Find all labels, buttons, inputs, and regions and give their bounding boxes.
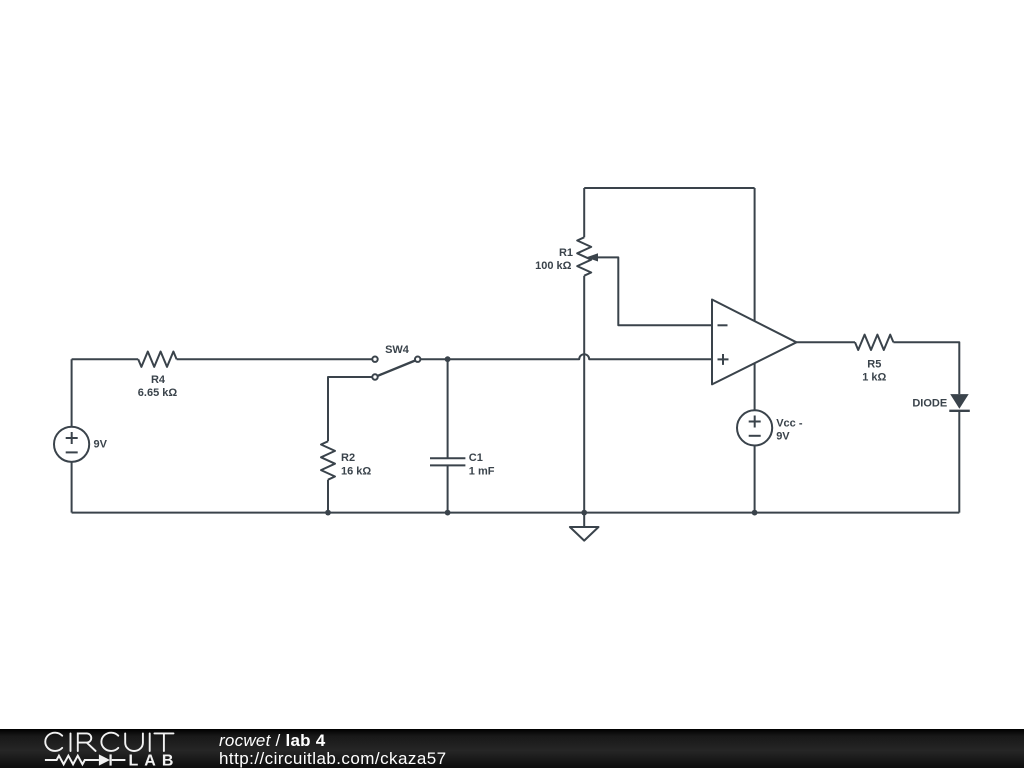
wire: 9V source bottom to bottom rail [71,462,73,513]
ground [583,513,585,527]
svg-text:100 kΩ: 100 kΩ [535,260,572,272]
svg-text:http://circuitlab.com/ckaza57: http://circuitlab.com/ckaza57 [219,749,447,768]
wire: main horizontal left segment [72,358,139,360]
wire: diode cathode to bottom rail [958,411,960,513]
resistor R2 [321,441,335,479]
logo letter C [45,733,62,751]
wire: R2 bottom [327,480,329,513]
potentiometer R1 body [577,237,591,275]
wire: R4 to switch [177,358,372,360]
svg-text:1 kΩ: 1 kΩ [862,372,886,384]
node: junction bottom rail / R2 [325,510,331,516]
wire: right vertical from top rail to Vcc source (passes behind op-amp) [754,188,756,410]
potentiometer R1 wiper arrow [586,253,598,261]
capacitor C1 [430,458,465,465]
svg-text:16 kΩ: 16 kΩ [341,465,371,477]
logo letter T [154,733,173,751]
switch SW4 [372,357,377,362]
wire: Vcc bottom to bottom rail [754,446,756,513]
node: junction main wire / C1 [445,356,451,362]
wire: switch lower throw to R2 branch [328,377,372,441]
wire: bottom rail [72,512,960,514]
wire: R5 to right corner, down to diode [893,342,959,394]
svg-text:R2: R2 [341,452,355,464]
diode D1 [950,394,969,409]
wire: R1 top lead [583,188,585,237]
svg-text:9V: 9V [94,438,108,450]
logo letter U [125,733,143,751]
wire: C1 top [447,359,449,458]
svg-text:1 mF: 1 mF [469,465,495,477]
logo letter I [149,733,151,751]
voltage source Vcc 9V [737,410,772,445]
wire: wiper to op-amp inverting input [597,257,712,325]
logo resistor-diode glyph [45,754,126,765]
svg-text:R4: R4 [151,374,166,386]
op-amp U1 [712,300,796,385]
logo letter C [101,733,118,751]
svg-text:9V: 9V [776,431,790,443]
wire: C1 bottom [447,465,449,512]
logo letter R [78,733,96,751]
wire: R1 bottom lead down through hop to bottom rail [583,276,585,513]
svg-text:R5: R5 [867,358,881,370]
svg-text:R1: R1 [559,247,573,259]
voltage source V1 9V [54,427,89,462]
resistor R5 [855,335,893,350]
svg-text:rocwet / lab 4: rocwet / lab 4 [219,731,326,750]
svg-text:SW4: SW4 [385,344,410,356]
node: junction bottom rail / Vcc [752,510,758,516]
wire: left vertical from main wire to 9V source top [71,359,73,427]
node: junction bottom rail / ground [581,510,587,516]
footer bar [0,729,1024,768]
resistor R4 [138,352,176,367]
svg-text:DIODE: DIODE [912,398,947,410]
wire: switch to op-amp plus input, hop over vertical at x=584 [421,354,712,359]
svg-text:C1: C1 [469,452,483,464]
CircuitLab logo: CIRCUIT wordmark [45,733,173,751]
wire: top feedback rail [584,187,754,189]
wire: op-amp output to R5 [796,341,855,343]
svg-text:6.65 kΩ: 6.65 kΩ [138,387,178,399]
svg-text:LAB: LAB [129,752,180,768]
svg-text:Vcc -: Vcc - [776,417,803,429]
logo letter I [70,733,72,751]
node: junction bottom rail / C1 [445,510,451,516]
